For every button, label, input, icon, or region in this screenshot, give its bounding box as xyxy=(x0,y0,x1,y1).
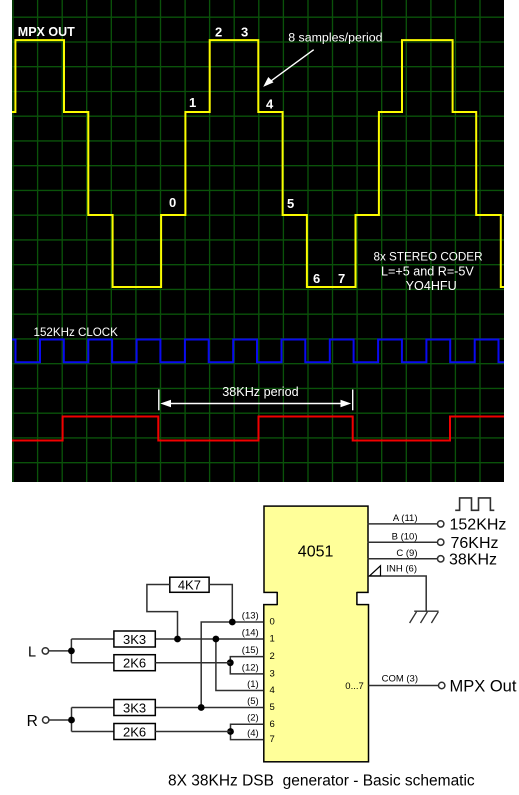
junction dot 2K6 L to pins 15 and 12 xyxy=(227,659,234,666)
svg-text:YO4HFU: YO4HFU xyxy=(406,279,457,293)
svg-text:L=+5 and R=-5V: L=+5 and R=-5V xyxy=(381,264,474,278)
svg-text:(1): (1) xyxy=(247,679,259,690)
IC connector notch between 4051 and mux xyxy=(278,591,357,605)
junction dot 4K7 to pin 13 xyxy=(229,619,236,626)
svg-text:(4): (4) xyxy=(247,728,259,739)
wire annotation arrow to waveform xyxy=(268,50,314,84)
resistor R1 4K7 xyxy=(170,577,209,592)
svg-text:4: 4 xyxy=(266,97,274,112)
svg-text:8x STEREO CODER: 8x STEREO CODER xyxy=(373,250,482,263)
svg-text:B (10): B (10) xyxy=(392,531,418,542)
wire COM (3) output xyxy=(369,685,439,687)
pin wire (12) input 3 xyxy=(230,663,263,674)
wire 4K7 left lead xyxy=(147,585,178,640)
oscilloscope screen background xyxy=(12,0,504,482)
wire L input to junction xyxy=(49,650,72,652)
terminal circle 76KHz xyxy=(438,539,444,545)
svg-text:5: 5 xyxy=(287,196,294,211)
terminal circle L input xyxy=(42,648,48,654)
wire 4K7 right lead xyxy=(209,585,232,623)
wire 2K6 R output xyxy=(155,731,230,733)
wire 38KHz period right tick xyxy=(352,390,354,411)
svg-text:(12): (12) xyxy=(242,662,259,673)
IC U1 4051 body xyxy=(264,506,368,592)
resistor R4 3K3 R xyxy=(114,700,155,716)
pin wire (5) input 5 xyxy=(155,707,263,709)
wire left arrowhead xyxy=(160,400,171,408)
svg-text:3K3: 3K3 xyxy=(123,700,146,715)
terminal circle 152KHz xyxy=(438,521,444,527)
svg-text:2: 2 xyxy=(270,651,275,662)
svg-text:R: R xyxy=(27,713,38,730)
svg-text:8X 38KHz DSB generator - Basi: 8X 38KHz DSB generator - Basic schematic xyxy=(168,773,475,790)
svg-text:38KHz: 38KHz xyxy=(449,552,497,569)
IC multiplexer body xyxy=(264,605,369,762)
wire L to 2K6 L xyxy=(71,662,114,664)
wire pin A (11) xyxy=(368,523,438,525)
wire pin B (10) xyxy=(368,541,438,543)
resistor R5 2K6 R xyxy=(114,724,155,740)
wire right arrowhead xyxy=(341,400,352,408)
junction dot L xyxy=(68,648,75,655)
junction dot pin 14 to pin 1 xyxy=(213,636,220,643)
svg-text:COM (3): COM (3) xyxy=(382,674,418,685)
svg-text:L: L xyxy=(28,644,36,660)
junction dot R xyxy=(68,717,75,724)
ground symbol xyxy=(410,611,439,623)
svg-text:3K3: 3K3 xyxy=(123,632,146,647)
terminal circle 38KHz xyxy=(438,556,444,562)
svg-text:0: 0 xyxy=(270,617,275,628)
svg-text:(13): (13) xyxy=(242,610,259,621)
svg-text:0: 0 xyxy=(169,195,176,210)
wire L to 3K3 L xyxy=(71,638,114,640)
svg-text:38KHz period: 38KHz period xyxy=(222,385,298,399)
svg-text:7: 7 xyxy=(270,734,275,745)
pin wire (14) input 1 xyxy=(155,638,263,640)
svg-text:2K6: 2K6 xyxy=(123,724,146,739)
svg-text:6: 6 xyxy=(270,719,275,730)
pin wire (1) input 4 xyxy=(216,639,263,691)
wire R branch vertical xyxy=(71,708,73,732)
svg-text:(2): (2) xyxy=(247,713,259,724)
wire R to 3K3 R xyxy=(72,707,114,709)
wire MPX OUT stepped waveform (yellow) xyxy=(12,40,504,287)
svg-text:152KHz: 152KHz xyxy=(450,517,507,534)
resistor R3 2K6 L xyxy=(114,655,155,671)
svg-text:152KHz CLOCK: 152KHz CLOCK xyxy=(34,326,119,339)
svg-text:3: 3 xyxy=(270,669,275,680)
junction dot 4K7 to 3K3 L xyxy=(174,636,181,643)
svg-text:8 samples/period: 8 samples/period xyxy=(288,30,382,44)
svg-text:(15): (15) xyxy=(242,645,259,656)
svg-text:MPX Out: MPX Out xyxy=(450,678,517,696)
wire pin INH (6) xyxy=(369,576,426,611)
wire L branch vertical xyxy=(70,639,72,663)
svg-text:76KHz: 76KHz xyxy=(451,535,499,552)
svg-text:4051: 4051 xyxy=(298,543,334,560)
wire R input to junction xyxy=(49,719,71,721)
inverter triangle on INH pin xyxy=(370,566,381,576)
svg-text:2: 2 xyxy=(215,25,222,40)
svg-text:6: 6 xyxy=(313,271,320,286)
svg-text:2K6: 2K6 xyxy=(123,656,146,671)
junction dot pin 13 to 3K3 R xyxy=(198,704,205,711)
terminal circle MPX Out xyxy=(439,682,445,688)
pin wire (15) input 2 xyxy=(230,657,263,663)
svg-text:MPX OUT: MPX OUT xyxy=(18,25,75,39)
svg-text:7: 7 xyxy=(338,271,345,286)
pin wire (13) input 0 xyxy=(201,622,263,708)
svg-text:C (9): C (9) xyxy=(396,548,417,559)
svg-text:INH (6): INH (6) xyxy=(386,564,417,575)
wire 2K6 L output xyxy=(155,662,230,664)
svg-text:(5): (5) xyxy=(247,696,259,707)
svg-text:4: 4 xyxy=(270,685,275,696)
wire pin C (9) xyxy=(368,558,438,560)
wire 38KHz period measurement line xyxy=(168,403,344,405)
svg-text:(14): (14) xyxy=(242,627,259,638)
pin wire (2) input 6 xyxy=(231,724,264,731)
svg-text:4K7: 4K7 xyxy=(178,577,201,592)
wire 38KHz period left tick xyxy=(158,390,160,411)
resistor R2 3K3 L xyxy=(114,631,155,647)
wire 38KHz waveform (red) xyxy=(12,417,504,441)
svg-text:0...7: 0...7 xyxy=(345,681,364,692)
svg-text:3: 3 xyxy=(241,25,248,40)
svg-text:A (11): A (11) xyxy=(393,513,418,524)
wire 152KHz clock waveform (blue) xyxy=(12,340,504,363)
svg-text:5: 5 xyxy=(270,702,275,713)
wire R to 2K6 R xyxy=(72,731,114,733)
junction dot 2K6 R to pins 2 and 4 xyxy=(227,728,234,735)
svg-text:1: 1 xyxy=(270,634,275,645)
svg-text:1: 1 xyxy=(189,95,196,110)
pin wire (4) input 7 xyxy=(231,732,264,740)
square wave symbol xyxy=(455,498,494,510)
terminal circle R input xyxy=(43,717,49,723)
